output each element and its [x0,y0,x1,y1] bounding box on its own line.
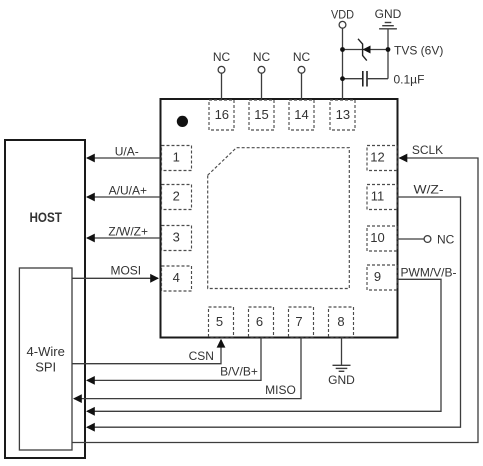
wire GND vertical [387,29,389,79]
pin 1 box [162,146,192,171]
svg-text:U/A-: U/A- [115,145,139,159]
svg-text:NC: NC [253,50,271,64]
4-Wire SPI label [27,344,65,375]
pin 15 box [249,100,274,130]
pin 2 box [162,185,192,210]
wire MOSI [72,264,159,283]
svg-text:SPI: SPI [35,360,56,375]
svg-text:0.1µF: 0.1µF [394,73,425,87]
pin 7 box [289,307,314,337]
junction dot left TVS [340,47,345,52]
VDD terminal [331,8,354,29]
svg-text:7: 7 [295,314,302,329]
NC at pin 14 [293,50,311,99]
pin 4 box [162,266,192,291]
junction dot cap [340,76,345,81]
pin 11 box [367,185,397,210]
svg-text:VDD: VDD [331,8,354,22]
NC at pin 15 [253,50,271,99]
wire MISO [73,338,301,403]
svg-text:4-Wire: 4-Wire [27,344,65,359]
svg-text:CSN: CSN [189,349,214,363]
junction dot right TVS [386,47,391,52]
GND terminal top [375,7,402,29]
chip U1 body [161,99,398,338]
HOST block [5,140,85,458]
pin 12 box [367,146,397,171]
svg-text:MISO: MISO [265,383,296,397]
svg-text:NC: NC [437,232,455,246]
4-Wire SPI block [19,268,72,450]
NC at pin 10 [397,232,455,246]
pin 5 box [209,307,234,337]
svg-text:PWM/V/B-: PWM/V/B- [401,265,457,279]
pin 16 box [209,100,234,130]
svg-text:Z/W/Z+: Z/W/Z+ [108,225,148,239]
NC at pin 16 [213,50,231,99]
svg-text:16: 16 [215,107,229,122]
pin 8 box [329,307,354,337]
pin 6 box [249,307,274,337]
wire B/V/B+ [86,338,261,385]
svg-text:13: 13 [336,107,350,122]
svg-text:2: 2 [173,189,180,204]
svg-text:9: 9 [374,269,381,284]
svg-text:NC: NC [293,50,311,64]
wire U/A- [86,145,161,163]
TVS diode D1 [358,39,371,61]
wire W/Z- [86,182,461,431]
svg-text:3: 3 [173,230,180,245]
svg-text:A/U/A+: A/U/A+ [109,184,147,198]
capacitor C1 0.1uF [343,71,389,87]
svg-text:MOSI: MOSI [110,264,141,278]
svg-text:8: 8 [337,314,344,329]
pin 3 box [162,226,192,251]
wire Z/W/Z+ [86,225,161,243]
svg-text:11: 11 [371,189,385,204]
svg-text:15: 15 [254,107,268,122]
wire CSN [72,339,225,364]
svg-text:NC: NC [213,50,231,64]
wire A/U/A+ [86,184,161,202]
svg-text:4: 4 [173,270,180,285]
wire TVS horizontal [343,49,389,51]
svg-text:W/Z-: W/Z- [414,182,444,196]
svg-text:14: 14 [294,107,308,122]
svg-text:6: 6 [256,314,263,329]
ground at pin 8 [328,338,355,387]
svg-text:SCLK: SCLK [412,143,443,157]
pin 13 box [330,100,355,130]
thermal pad [208,148,350,289]
pin 9 box [367,265,397,290]
svg-text:GND: GND [375,7,402,21]
svg-text:10: 10 [370,230,384,245]
pin 14 box [289,100,314,130]
svg-text:HOST: HOST [29,209,62,225]
wire SCLK [72,143,478,443]
svg-text:1: 1 [173,150,180,165]
pin 10 box [367,226,397,251]
svg-text:12: 12 [370,150,384,165]
pin 1 marker dot [177,116,188,127]
svg-text:TVS (6V): TVS (6V) [394,44,443,58]
svg-text:GND: GND [328,373,355,387]
svg-text:5: 5 [216,314,223,329]
wire VDD to pin 13 [342,28,344,99]
wire PWM/V/B- [86,265,457,415]
svg-text:B/V/B+: B/V/B+ [220,365,258,379]
